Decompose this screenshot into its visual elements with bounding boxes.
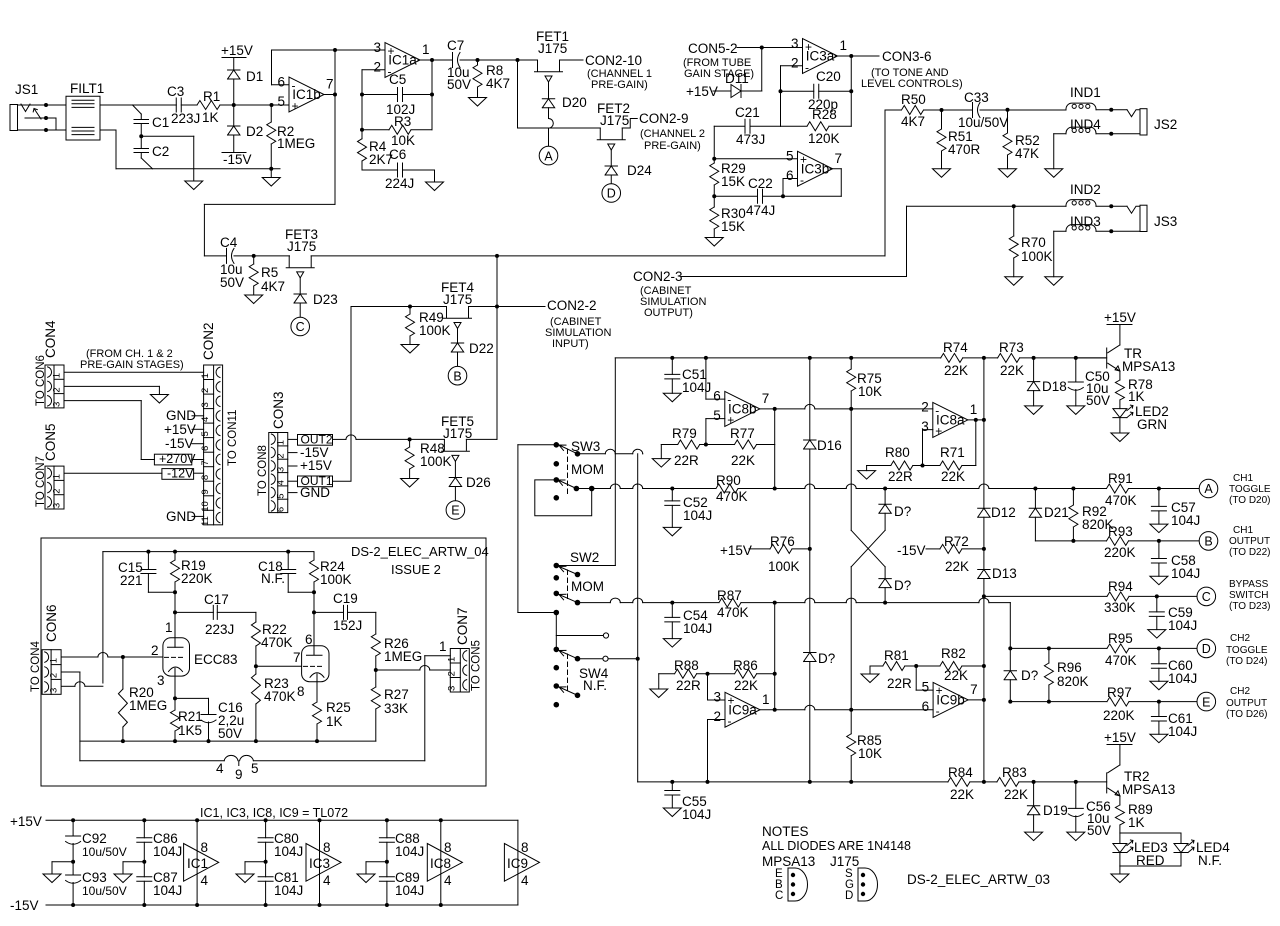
svg-text:R72: R72 bbox=[944, 534, 969, 549]
svg-text:820K: 820K bbox=[1057, 674, 1089, 689]
wire bbox=[496, 256, 498, 440]
ground bbox=[1067, 406, 1085, 415]
svg-text:5: 5 bbox=[200, 431, 211, 436]
svg-text:C: C bbox=[775, 890, 783, 902]
svg-text:3: 3 bbox=[713, 690, 721, 705]
ground bbox=[1148, 630, 1166, 639]
svg-text:J175: J175 bbox=[538, 41, 567, 56]
svg-text:LEVEL CONTROLS): LEVEL CONTROLS) bbox=[861, 78, 963, 90]
svg-text:B: B bbox=[1204, 535, 1212, 549]
svg-text:ECC83: ECC83 bbox=[194, 652, 238, 667]
wire bbox=[466, 438, 497, 440]
svg-text:220K: 220K bbox=[1104, 545, 1136, 560]
svg-text:D2: D2 bbox=[246, 124, 263, 139]
row R87 wire bbox=[578, 602, 611, 604]
wire bbox=[835, 55, 851, 57]
svg-text:6: 6 bbox=[275, 507, 286, 512]
svg-text:GRN: GRN bbox=[1137, 417, 1167, 432]
wire bbox=[234, 104, 272, 106]
ground bbox=[401, 479, 419, 488]
ground bbox=[366, 861, 387, 863]
svg-text:J175: J175 bbox=[287, 239, 316, 254]
svg-text:104J: 104J bbox=[683, 508, 712, 523]
svg-text:R3: R3 bbox=[394, 114, 411, 129]
svg-text:+: + bbox=[935, 424, 942, 438]
wire bbox=[642, 453, 644, 455]
svg-text:104J: 104J bbox=[682, 380, 711, 395]
svg-text:R25: R25 bbox=[326, 700, 351, 715]
svg-text:3: 3 bbox=[373, 40, 381, 55]
svg-text:120K: 120K bbox=[808, 131, 840, 146]
svg-text:104J: 104J bbox=[153, 844, 182, 859]
svg-text:+: + bbox=[292, 99, 299, 113]
svg-text:6: 6 bbox=[200, 446, 211, 451]
svg-text:D12: D12 bbox=[991, 505, 1016, 520]
svg-text:470K: 470K bbox=[716, 489, 748, 504]
ground bbox=[663, 808, 681, 817]
svg-text:5: 5 bbox=[275, 493, 286, 498]
svg-text:10K: 10K bbox=[391, 133, 415, 148]
svg-text:N.F.: N.F. bbox=[1198, 853, 1222, 868]
op-amp IC8b bbox=[725, 391, 760, 426]
svg-text:3: 3 bbox=[447, 686, 458, 691]
svg-text:104J: 104J bbox=[274, 844, 303, 859]
svg-text:IC8: IC8 bbox=[430, 856, 451, 871]
svg-text:DS-2_ELEC_ARTW_04: DS-2_ELEC_ARTW_04 bbox=[351, 544, 489, 559]
svg-text:8: 8 bbox=[200, 475, 211, 480]
svg-text:4: 4 bbox=[275, 480, 286, 485]
svg-text:3: 3 bbox=[200, 402, 211, 407]
node bbox=[252, 254, 256, 258]
wire bbox=[615, 357, 940, 359]
svg-text:OUTPUT: OUTPUT bbox=[1229, 536, 1270, 547]
svg-text:5: 5 bbox=[251, 761, 259, 776]
svg-text:104J: 104J bbox=[682, 807, 711, 822]
jack JS3 bbox=[1127, 206, 1140, 213]
wire bbox=[62, 656, 98, 658]
wire bbox=[708, 719, 726, 721]
svg-text:474J: 474J bbox=[746, 203, 775, 218]
svg-text:-15V: -15V bbox=[10, 898, 39, 913]
svg-text:D20: D20 bbox=[562, 95, 587, 110]
svg-text:J175: J175 bbox=[443, 292, 472, 307]
svg-text:1: 1 bbox=[200, 373, 211, 378]
svg-text:D?: D? bbox=[894, 578, 911, 593]
svg-text:+15V: +15V bbox=[1104, 310, 1136, 325]
svg-text:104J: 104J bbox=[1171, 566, 1200, 581]
svg-text:22R: 22R bbox=[887, 676, 912, 691]
svg-text:(TO D24): (TO D24) bbox=[1226, 656, 1268, 667]
wire bbox=[783, 178, 798, 180]
svg-text:CON7: CON7 bbox=[455, 607, 470, 645]
svg-text:8: 8 bbox=[297, 684, 305, 699]
svg-text:(TO D20): (TO D20) bbox=[1229, 495, 1271, 506]
svg-text:C93: C93 bbox=[82, 870, 107, 885]
svg-text:470K: 470K bbox=[261, 635, 293, 650]
wire bbox=[174, 592, 176, 647]
svg-text:R70: R70 bbox=[1021, 235, 1046, 250]
ground bbox=[1025, 832, 1043, 841]
svg-text:470K: 470K bbox=[717, 605, 749, 620]
svg-text:+: + bbox=[388, 44, 395, 58]
svg-text:104J: 104J bbox=[683, 621, 712, 636]
ground bbox=[1025, 406, 1043, 415]
svg-text:10u/50V: 10u/50V bbox=[82, 845, 127, 859]
svg-text:D26: D26 bbox=[466, 475, 491, 490]
wire bbox=[80, 740, 376, 742]
ground bbox=[245, 295, 263, 304]
svg-text:D22: D22 bbox=[469, 341, 494, 356]
svg-text:3: 3 bbox=[52, 503, 63, 508]
svg-text:+15V: +15V bbox=[1104, 730, 1136, 745]
svg-text:ALL DIODES ARE 1N4148: ALL DIODES ARE 1N4148 bbox=[762, 839, 911, 853]
svg-text:2: 2 bbox=[49, 673, 60, 678]
svg-text:C22: C22 bbox=[748, 176, 773, 191]
node B out bbox=[1199, 532, 1218, 551]
svg-text:104J: 104J bbox=[153, 883, 182, 898]
ground bbox=[245, 861, 266, 863]
wire bbox=[805, 484, 815, 489]
svg-text:6: 6 bbox=[786, 168, 794, 183]
wire bbox=[425, 655, 451, 657]
svg-text:3: 3 bbox=[52, 402, 63, 407]
op-amp IC8a bbox=[933, 402, 968, 437]
svg-text:3: 3 bbox=[275, 467, 286, 472]
svg-text:1: 1 bbox=[165, 620, 173, 635]
svg-text:JS1: JS1 bbox=[15, 82, 38, 97]
svg-text:7: 7 bbox=[293, 650, 301, 665]
svg-text:9: 9 bbox=[235, 767, 243, 782]
svg-text:CON2-10: CON2-10 bbox=[585, 53, 642, 68]
svg-text:TO CON4: TO CON4 bbox=[30, 640, 42, 692]
wire bbox=[1019, 781, 1107, 783]
svg-text:R28: R28 bbox=[812, 107, 837, 122]
svg-text:100K: 100K bbox=[1021, 249, 1053, 264]
svg-text:8: 8 bbox=[444, 840, 452, 855]
svg-text:+: + bbox=[805, 40, 812, 54]
svg-text:152J: 152J bbox=[333, 618, 362, 633]
svg-text:CON5: CON5 bbox=[43, 423, 58, 461]
svg-text:CH2: CH2 bbox=[1230, 633, 1250, 644]
svg-text:J175: J175 bbox=[443, 426, 472, 441]
svg-text:-: - bbox=[805, 60, 809, 74]
svg-text:INPUT): INPUT) bbox=[552, 338, 589, 350]
svg-text:1: 1 bbox=[422, 42, 430, 57]
svg-text:D24: D24 bbox=[627, 163, 652, 178]
svg-text:5: 5 bbox=[713, 408, 721, 423]
wire bbox=[637, 454, 639, 782]
svg-text:R82: R82 bbox=[941, 646, 966, 661]
node bbox=[269, 167, 273, 171]
svg-text:MPSA13: MPSA13 bbox=[1122, 782, 1175, 797]
node bbox=[232, 103, 236, 107]
svg-text:4: 4 bbox=[444, 873, 452, 888]
wire bbox=[100, 104, 176, 106]
svg-text:3: 3 bbox=[49, 688, 60, 693]
svg-text:-: - bbox=[727, 393, 731, 407]
svg-text:C1: C1 bbox=[152, 115, 169, 130]
wire bbox=[376, 669, 420, 671]
ground bbox=[652, 459, 670, 468]
svg-text:1K: 1K bbox=[1128, 389, 1145, 404]
heater wires 4 9 5 bbox=[80, 760, 224, 762]
ground bbox=[663, 639, 681, 648]
wire bbox=[103, 551, 314, 553]
wire bbox=[64, 371, 204, 373]
svg-text:FILT1: FILT1 bbox=[70, 81, 104, 96]
svg-text:470K: 470K bbox=[1105, 653, 1137, 668]
svg-text:22K: 22K bbox=[1000, 363, 1024, 378]
svg-text:TO CON5: TO CON5 bbox=[471, 640, 483, 691]
svg-text:5: 5 bbox=[277, 94, 285, 109]
svg-text:100K: 100K bbox=[420, 454, 452, 469]
op-amp IC1 power bbox=[196, 820, 198, 905]
wire bbox=[1076, 357, 1106, 359]
svg-text:N.F.: N.F. bbox=[583, 678, 607, 693]
svg-text:R77: R77 bbox=[730, 426, 755, 441]
svg-text:10u/50V: 10u/50V bbox=[958, 115, 1008, 130]
ground bbox=[270, 169, 272, 178]
wire bbox=[18, 104, 67, 106]
wire bbox=[614, 358, 616, 566]
svg-text:1K: 1K bbox=[1128, 815, 1145, 830]
svg-text:TOGGLE: TOGGLE bbox=[1229, 484, 1271, 495]
svg-text:2: 2 bbox=[275, 453, 286, 458]
svg-text:1: 1 bbox=[840, 38, 848, 53]
svg-text:CON4: CON4 bbox=[43, 320, 58, 358]
svg-text:6: 6 bbox=[922, 699, 930, 714]
svg-text:SWITCH: SWITCH bbox=[1229, 590, 1268, 601]
svg-text:4: 4 bbox=[323, 873, 331, 888]
svg-text:470K: 470K bbox=[1105, 493, 1137, 508]
svg-text:104J: 104J bbox=[1168, 618, 1197, 633]
node bbox=[1006, 108, 1010, 112]
op-amp IC9b bbox=[933, 682, 968, 717]
svg-text:D?: D? bbox=[894, 504, 911, 519]
svg-text:R79: R79 bbox=[672, 426, 697, 441]
svg-text:R80: R80 bbox=[885, 445, 910, 460]
svg-text:22K: 22K bbox=[944, 363, 968, 378]
svg-text:IND2: IND2 bbox=[1070, 182, 1101, 197]
wire bbox=[469, 306, 546, 308]
svg-text:223J: 223J bbox=[205, 622, 234, 637]
svg-text:SW2: SW2 bbox=[570, 550, 599, 565]
wire hop bbox=[549, 119, 554, 129]
svg-text:1: 1 bbox=[52, 373, 63, 378]
node E bbox=[446, 501, 465, 520]
svg-text:2: 2 bbox=[713, 709, 721, 724]
svg-text:C: C bbox=[296, 320, 305, 334]
svg-text:-: - bbox=[728, 714, 732, 728]
svg-text:BYPASS: BYPASS bbox=[1229, 579, 1269, 590]
svg-text:104J: 104J bbox=[274, 883, 303, 898]
svg-text:1K: 1K bbox=[326, 714, 343, 729]
wire bbox=[64, 385, 159, 387]
node B bbox=[448, 366, 467, 385]
svg-text:22K: 22K bbox=[1004, 787, 1028, 802]
svg-text:6: 6 bbox=[305, 632, 313, 647]
wire bbox=[850, 409, 852, 530]
svg-text:OUTPUT): OUTPUT) bbox=[644, 307, 693, 319]
svg-text:-: - bbox=[292, 78, 296, 92]
wire bbox=[62, 671, 80, 673]
wire bbox=[1120, 832, 1181, 834]
svg-text:R27: R27 bbox=[384, 687, 409, 702]
svg-text:D: D bbox=[845, 890, 853, 902]
tube U1 ECC83 triode 2 bbox=[302, 646, 329, 682]
svg-text:47K: 47K bbox=[1015, 146, 1039, 161]
wire bbox=[805, 598, 815, 603]
svg-text:CH2: CH2 bbox=[1230, 686, 1250, 697]
row D wire bbox=[1010, 647, 1107, 649]
svg-text:JS3: JS3 bbox=[1154, 214, 1177, 229]
svg-text:C20: C20 bbox=[816, 69, 841, 84]
svg-text:+: + bbox=[800, 153, 807, 167]
svg-text:220K: 220K bbox=[181, 571, 213, 586]
svg-text:D?: D? bbox=[818, 651, 835, 666]
wire bbox=[1119, 418, 1121, 433]
svg-text:104J: 104J bbox=[1171, 513, 1200, 528]
wire bbox=[970, 781, 997, 783]
op-amp IC8 power bbox=[440, 820, 442, 905]
op-amp IC9a bbox=[725, 692, 760, 727]
node bbox=[1109, 108, 1113, 112]
svg-text:22K: 22K bbox=[950, 787, 974, 802]
ground bbox=[999, 169, 1017, 178]
svg-text:R5: R5 bbox=[261, 265, 278, 280]
svg-text:SW3: SW3 bbox=[571, 439, 600, 454]
svg-text:CON3: CON3 bbox=[271, 391, 286, 429]
svg-text:6: 6 bbox=[713, 389, 721, 404]
wire bbox=[535, 480, 592, 516]
svg-text:(CHANNEL 2: (CHANNEL 2 bbox=[640, 128, 705, 140]
svg-text:TOGGLE: TOGGLE bbox=[1226, 645, 1268, 656]
svg-text:CH1: CH1 bbox=[1233, 525, 1253, 536]
wire bbox=[578, 658, 603, 660]
svg-text:8: 8 bbox=[201, 840, 209, 855]
node A out bbox=[1199, 479, 1218, 498]
svg-text:22R: 22R bbox=[888, 469, 913, 484]
wire bbox=[916, 689, 933, 691]
svg-text:1MEG: 1MEG bbox=[129, 698, 167, 713]
svg-text:2: 2 bbox=[921, 400, 929, 415]
svg-text:MOM: MOM bbox=[571, 462, 604, 477]
ground bbox=[469, 98, 487, 107]
wire bbox=[100, 129, 116, 131]
box DS-2_ELEC_ARTW_04 bbox=[41, 538, 486, 786]
svg-text:104J: 104J bbox=[395, 883, 424, 898]
svg-text:CON2: CON2 bbox=[201, 322, 216, 360]
wire bbox=[362, 69, 385, 71]
power -15V bbox=[222, 152, 246, 154]
svg-text:8: 8 bbox=[521, 840, 529, 855]
svg-text:10u/50V: 10u/50V bbox=[82, 884, 127, 898]
wire bbox=[781, 65, 803, 67]
label OUT1 bbox=[298, 476, 333, 487]
ground bbox=[1045, 169, 1063, 178]
svg-text:100K: 100K bbox=[419, 323, 451, 338]
row E wire bbox=[1010, 701, 1107, 703]
svg-text:1: 1 bbox=[49, 658, 60, 663]
wire bbox=[204, 203, 335, 205]
svg-text:J175: J175 bbox=[600, 113, 629, 128]
svg-text:100K: 100K bbox=[320, 572, 352, 587]
svg-text:+15V: +15V bbox=[10, 814, 42, 829]
svg-text:D19: D19 bbox=[1043, 803, 1068, 818]
svg-text:C4: C4 bbox=[220, 235, 238, 250]
svg-text:9: 9 bbox=[200, 489, 211, 494]
svg-text:C19: C19 bbox=[333, 591, 358, 606]
svg-text:-15V: -15V bbox=[223, 152, 252, 167]
svg-text:4: 4 bbox=[200, 417, 211, 422]
ground bbox=[650, 689, 668, 698]
ground bbox=[663, 527, 681, 536]
wire bbox=[418, 59, 432, 61]
svg-text:15K: 15K bbox=[721, 219, 745, 234]
svg-text:5: 5 bbox=[786, 149, 794, 164]
svg-text:CON2-9: CON2-9 bbox=[639, 111, 689, 126]
svg-text:-15V: -15V bbox=[165, 436, 194, 451]
svg-text:MPSA13: MPSA13 bbox=[1122, 359, 1175, 374]
svg-text:7: 7 bbox=[200, 460, 211, 465]
svg-text:22R: 22R bbox=[676, 678, 701, 693]
wire bbox=[64, 400, 141, 402]
svg-text:TO CON11: TO CON11 bbox=[227, 410, 239, 466]
power -12V bbox=[162, 469, 194, 480]
svg-text:(TO D23): (TO D23) bbox=[1229, 601, 1271, 612]
svg-text:J175: J175 bbox=[830, 854, 859, 869]
svg-text:C5: C5 bbox=[389, 72, 406, 87]
node bbox=[1012, 204, 1016, 208]
svg-text:C7: C7 bbox=[447, 38, 464, 53]
svg-text:221: 221 bbox=[120, 573, 143, 588]
svg-text:DS-2_ELEC_ARTW_03: DS-2_ELEC_ARTW_03 bbox=[907, 872, 1050, 887]
wire bbox=[560, 59, 584, 61]
svg-text:IND1: IND1 bbox=[1070, 85, 1101, 100]
ground bbox=[150, 395, 168, 404]
ground bbox=[663, 393, 681, 402]
svg-text:3: 3 bbox=[157, 673, 165, 688]
ground bbox=[1150, 524, 1168, 533]
svg-text:(TO D26): (TO D26) bbox=[1226, 709, 1268, 720]
ground bbox=[1111, 874, 1129, 883]
svg-text:C92: C92 bbox=[82, 831, 107, 846]
svg-text:10: 10 bbox=[200, 501, 211, 512]
svg-text:104J: 104J bbox=[1168, 724, 1197, 739]
svg-text:D23: D23 bbox=[313, 292, 338, 307]
svg-text:IC9: IC9 bbox=[507, 856, 528, 871]
svg-text:PRE-GAIN STAGES): PRE-GAIN STAGES) bbox=[80, 359, 184, 371]
svg-text:10K: 10K bbox=[858, 746, 882, 761]
node D out bbox=[1197, 639, 1216, 658]
svg-text:D16: D16 bbox=[817, 438, 842, 453]
wire bbox=[578, 453, 606, 455]
svg-text:+: + bbox=[936, 684, 943, 698]
svg-text:+270V: +270V bbox=[159, 452, 196, 466]
svg-text:NOTES: NOTES bbox=[762, 824, 809, 839]
node bbox=[940, 108, 944, 112]
ground bbox=[426, 182, 444, 191]
svg-text:220K: 220K bbox=[1103, 708, 1135, 723]
svg-text:OUTPUT: OUTPUT bbox=[1226, 698, 1267, 709]
svg-text:6: 6 bbox=[277, 74, 285, 89]
svg-text:JS2: JS2 bbox=[1154, 117, 1177, 132]
label OUT2 bbox=[298, 435, 333, 446]
svg-text:R74: R74 bbox=[943, 340, 968, 355]
node junctions bbox=[476, 58, 480, 62]
svg-text:223J: 223J bbox=[171, 111, 200, 126]
wire bbox=[139, 134, 143, 138]
